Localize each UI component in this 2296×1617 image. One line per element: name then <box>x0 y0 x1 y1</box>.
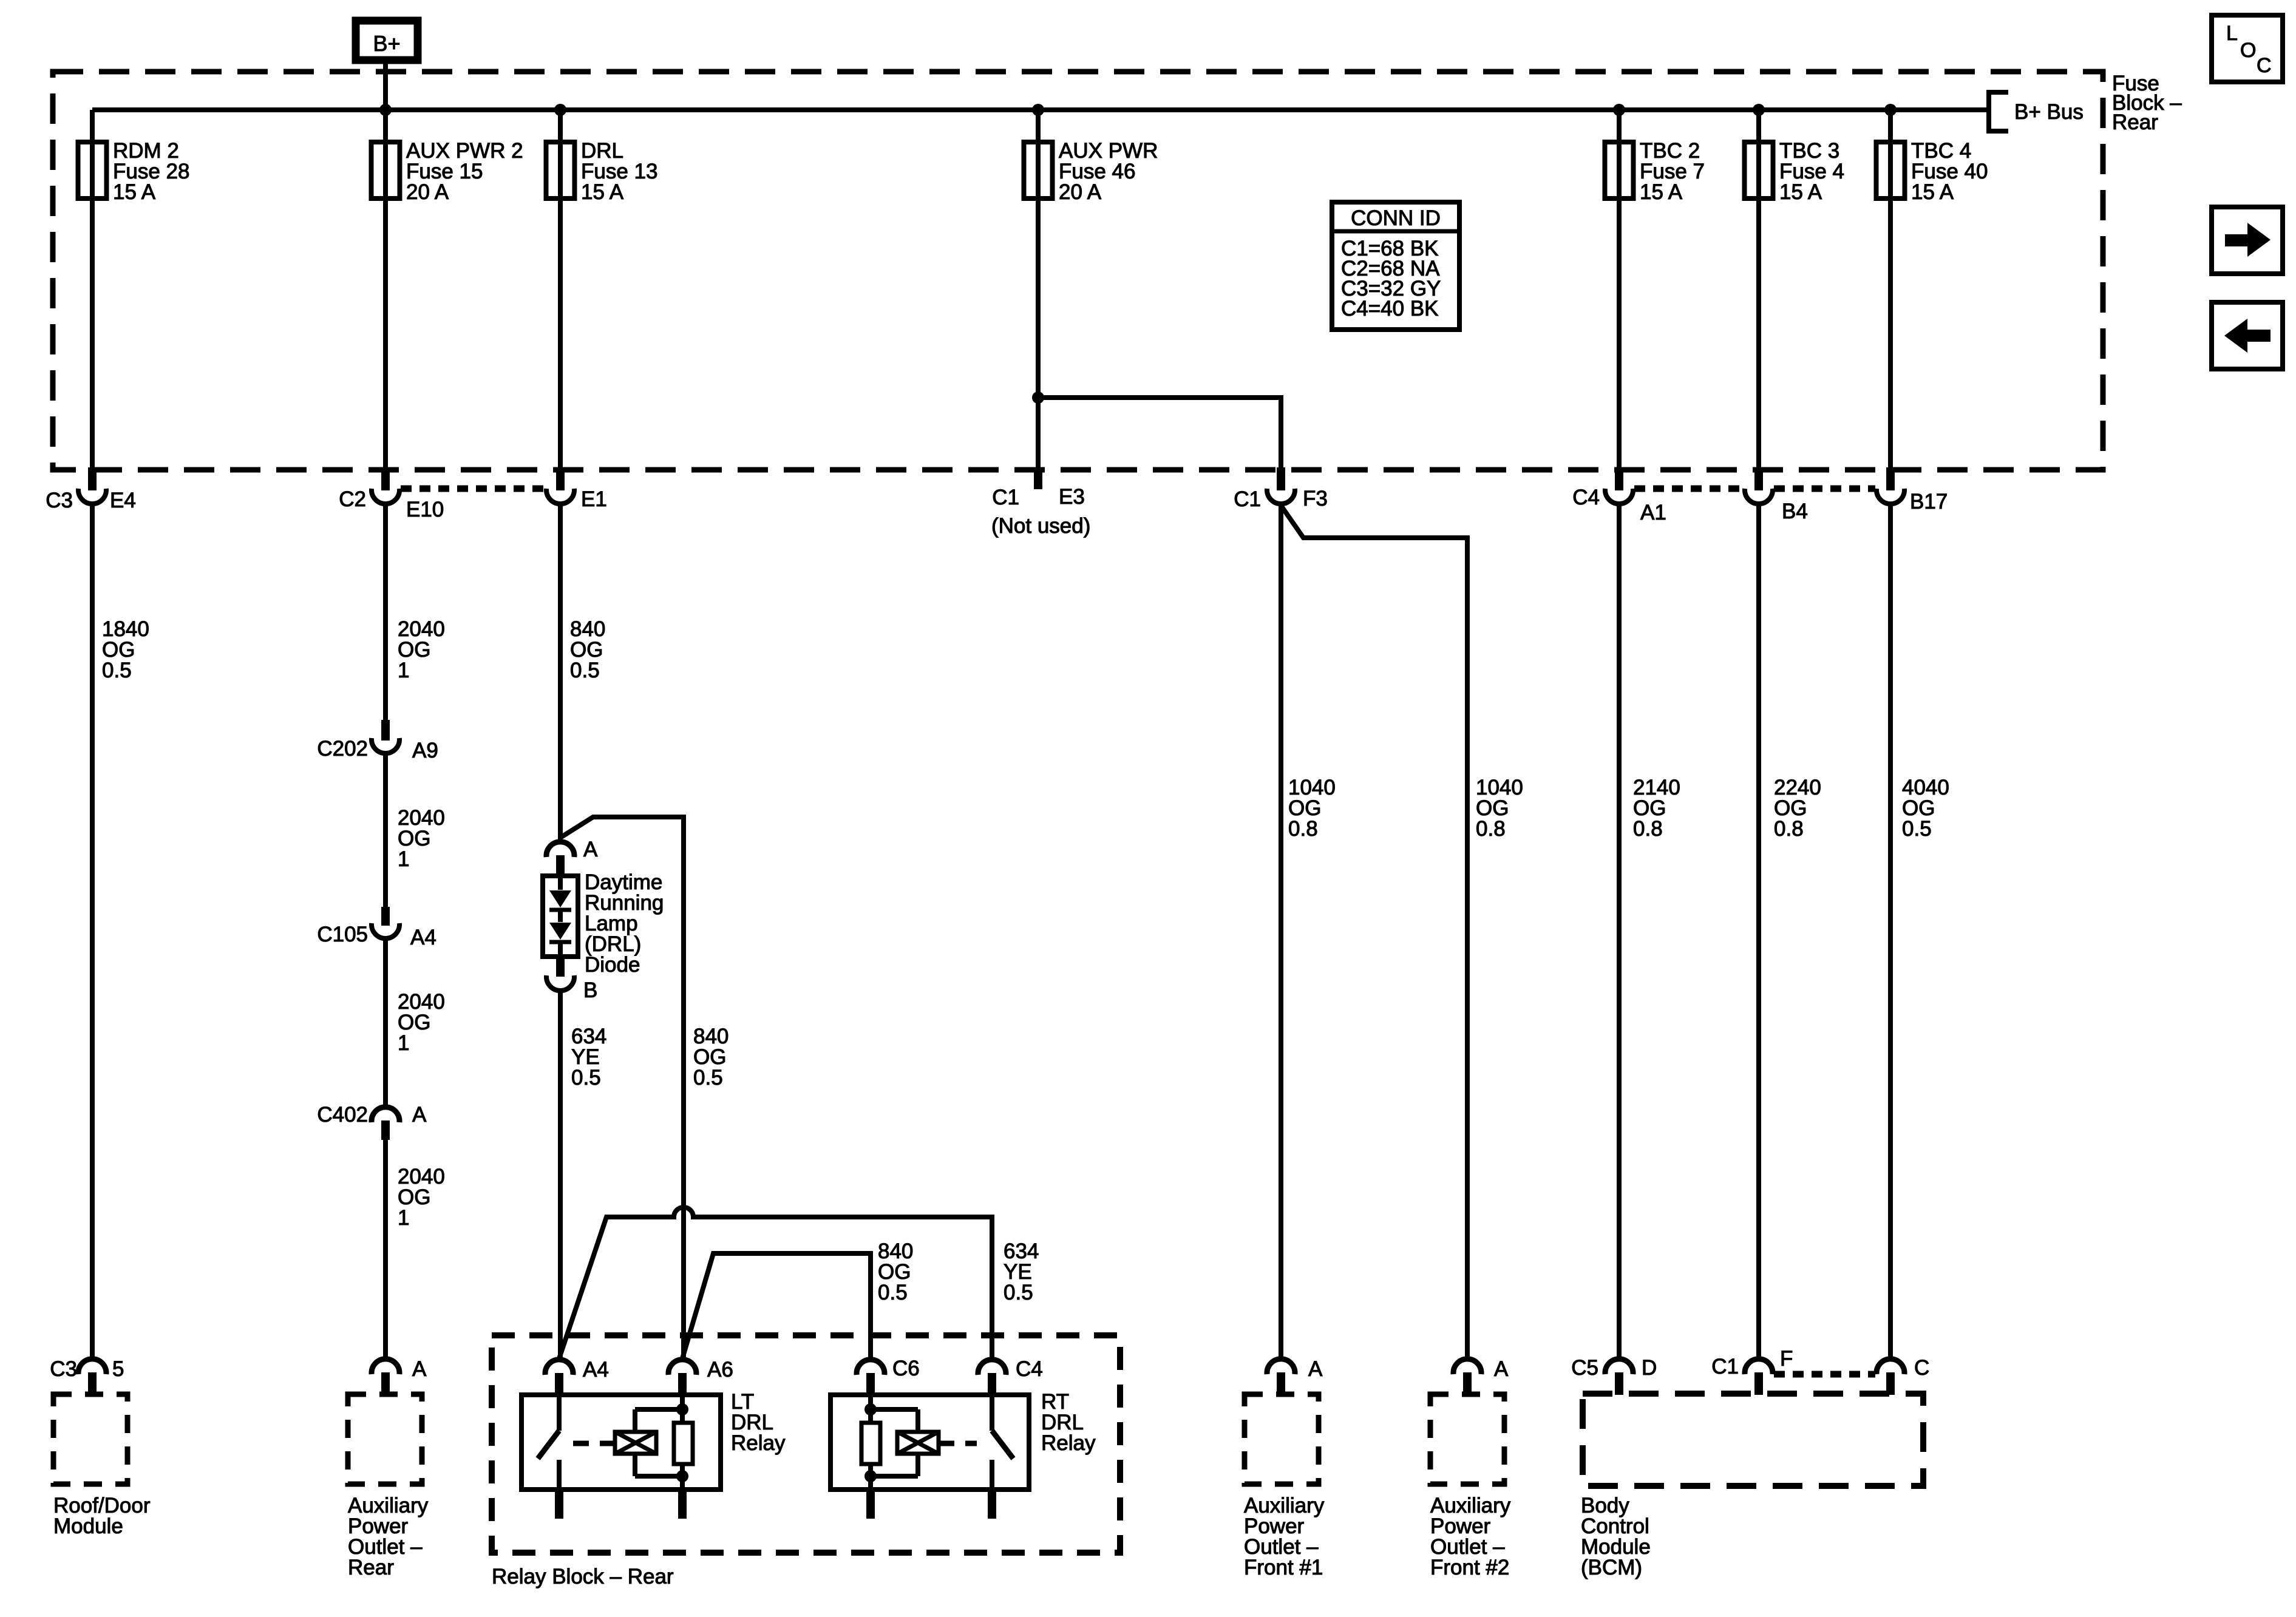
svg-text:O: O <box>2240 39 2256 62</box>
svg-text:B+: B+ <box>373 31 400 56</box>
svg-text:C2: C2 <box>339 487 366 511</box>
svg-text:A1: A1 <box>1640 501 1666 524</box>
svg-text:Front #1: Front #1 <box>1244 1556 1323 1579</box>
svg-text:C3: C3 <box>50 1357 77 1381</box>
svg-text:0.5: 0.5 <box>1004 1281 1033 1304</box>
svg-text:15 A: 15 A <box>1911 180 1954 204</box>
svg-text:C6: C6 <box>892 1357 920 1380</box>
svg-text:Relay: Relay <box>731 1431 786 1455</box>
svg-text:C3: C3 <box>46 489 73 512</box>
svg-text:E3: E3 <box>1059 485 1085 509</box>
svg-text:0.5: 0.5 <box>1902 817 1932 841</box>
svg-text:CONN ID: CONN ID <box>1351 206 1441 230</box>
svg-text:1: 1 <box>398 1031 409 1055</box>
svg-text:A: A <box>412 1103 427 1127</box>
svg-text:0.5: 0.5 <box>570 659 600 682</box>
svg-text:Module: Module <box>53 1514 123 1538</box>
svg-text:C5: C5 <box>1571 1356 1598 1380</box>
svg-text:A4: A4 <box>583 1358 609 1381</box>
svg-text:20 A: 20 A <box>406 180 449 204</box>
svg-text:5: 5 <box>112 1357 124 1381</box>
svg-text:0.8: 0.8 <box>1476 817 1506 841</box>
svg-text:Rear: Rear <box>2112 110 2158 134</box>
svg-text:C402: C402 <box>317 1103 368 1127</box>
svg-text:A: A <box>1308 1357 1323 1381</box>
svg-text:C202: C202 <box>317 737 368 761</box>
svg-text:0.5: 0.5 <box>693 1066 723 1090</box>
svg-text:C: C <box>1914 1356 1929 1380</box>
svg-text:0.5: 0.5 <box>878 1281 908 1304</box>
svg-text:0.8: 0.8 <box>1288 817 1318 841</box>
svg-text:A6: A6 <box>707 1358 733 1381</box>
svg-text:20 A: 20 A <box>1059 180 1102 204</box>
svg-text:C1: C1 <box>992 486 1019 509</box>
svg-text:Front #2: Front #2 <box>1430 1556 1509 1579</box>
svg-text:C4: C4 <box>1572 486 1600 509</box>
svg-text:0.8: 0.8 <box>1774 817 1804 841</box>
svg-text:B+ Bus: B+ Bus <box>2014 100 2084 124</box>
svg-text:D: D <box>1642 1356 1657 1380</box>
svg-text:1: 1 <box>398 659 409 682</box>
svg-text:F3: F3 <box>1303 487 1328 510</box>
svg-text:B17: B17 <box>1910 490 1948 514</box>
svg-text:C4=40 BK: C4=40 BK <box>1341 297 1439 320</box>
svg-text:C4: C4 <box>1016 1357 1043 1381</box>
svg-text:15 A: 15 A <box>1779 180 1822 204</box>
svg-text:1: 1 <box>398 1206 409 1230</box>
svg-text:15 A: 15 A <box>581 180 624 204</box>
svg-text:B4: B4 <box>1782 500 1808 523</box>
svg-text:Relay Block – Rear: Relay Block – Rear <box>492 1565 674 1588</box>
svg-text:0.8: 0.8 <box>1633 817 1663 841</box>
svg-text:Diode: Diode <box>585 953 640 977</box>
svg-text:C1: C1 <box>1234 487 1261 511</box>
svg-text:Relay: Relay <box>1041 1431 1096 1455</box>
svg-text:B: B <box>583 978 597 1002</box>
svg-text:E10: E10 <box>406 498 444 521</box>
svg-text:E1: E1 <box>581 487 607 511</box>
svg-text:(Not used): (Not used) <box>991 514 1090 538</box>
svg-text:A4: A4 <box>410 926 436 949</box>
svg-text:A: A <box>583 838 598 861</box>
svg-text:1: 1 <box>398 847 409 871</box>
svg-text:15 A: 15 A <box>113 180 156 204</box>
svg-text:0.5: 0.5 <box>102 659 132 682</box>
svg-text:A: A <box>412 1357 427 1381</box>
svg-text:C1: C1 <box>1711 1355 1739 1378</box>
svg-text:A9: A9 <box>412 739 438 762</box>
svg-text:C105: C105 <box>317 923 368 946</box>
svg-text:A: A <box>1494 1357 1509 1381</box>
svg-text:(BCM): (BCM) <box>1581 1556 1642 1579</box>
svg-text:L: L <box>2226 22 2238 45</box>
svg-text:F: F <box>1780 1347 1793 1371</box>
svg-text:C: C <box>2257 54 2272 77</box>
svg-text:E4: E4 <box>110 489 136 512</box>
svg-text:Rear: Rear <box>348 1556 394 1579</box>
svg-text:15 A: 15 A <box>1640 180 1683 204</box>
svg-text:0.5: 0.5 <box>571 1066 601 1090</box>
